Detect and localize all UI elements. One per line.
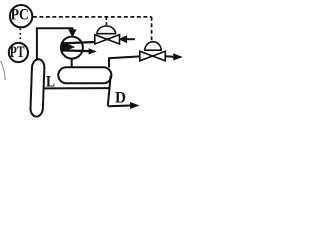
svg-text:L: L xyxy=(46,73,55,90)
svg-text:PT: PT xyxy=(10,44,25,61)
svg-text:D: D xyxy=(115,89,126,106)
svg-text:PC: PC xyxy=(11,7,29,24)
